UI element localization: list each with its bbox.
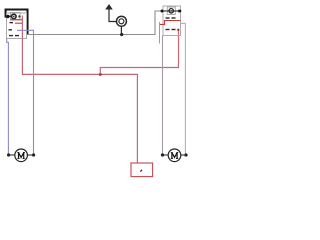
power arrow [105, 4, 113, 10]
contact row 3 [9, 35, 19, 37]
wire [181, 23, 186, 154]
node [120, 33, 123, 36]
wire [11, 19, 23, 21]
wire [8, 15, 12, 17]
node [6, 15, 9, 18]
switch S1 breaker box [11, 13, 21, 21]
circuit breaker CB2 [168, 8, 174, 14]
node [99, 73, 102, 76]
motor M2 [161, 149, 188, 162]
switch S2 (right) outer box [163, 6, 181, 36]
switch S2 breaker box [167, 7, 175, 15]
node [161, 10, 164, 13]
circuit breaker (center) [117, 16, 127, 26]
contact row 1 [10, 22, 14, 24]
motor M1 [7, 149, 35, 162]
contact row 1 [166, 17, 176, 19]
switch S1 (left) outer box [7, 13, 27, 39]
node [178, 10, 181, 13]
connector box [131, 163, 153, 177]
wire [7, 39, 9, 155]
label mark [140, 169, 143, 172]
node [177, 29, 179, 31]
wire [159, 22, 161, 44]
contact row 2 [166, 29, 176, 31]
wire [162, 36, 164, 155]
wire [109, 9, 117, 22]
wire [17, 30, 34, 155]
wire [100, 29, 178, 74]
wire [15, 22, 22, 24]
wire [160, 21, 181, 25]
wire [161, 10, 182, 12]
node [18, 15, 20, 17]
wire [28, 11, 162, 35]
wire [6, 10, 28, 35]
circuit breaker CB1 [11, 13, 17, 19]
wire [120, 27, 122, 35]
wire [22, 16, 137, 164]
contact row 2 [9, 29, 13, 31]
